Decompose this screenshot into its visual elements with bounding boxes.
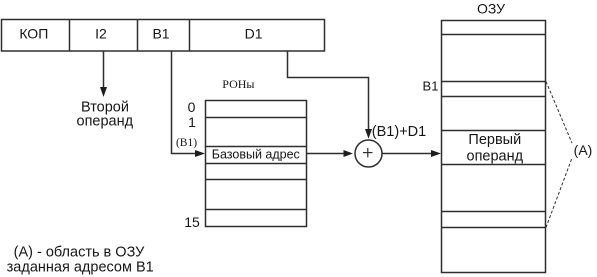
svg-text:операнд: операнд [77,114,134,130]
svg-text:Базовый адрес: Базовый адрес [212,148,300,162]
svg-text:(В1): (В1) [176,137,197,149]
svg-text:(В1)+D1: (В1)+D1 [372,124,426,140]
svg-text:0: 0 [188,99,196,115]
svg-text:(А) - область в ОЗУ: (А) - область в ОЗУ [14,245,146,261]
svg-text:заданная адресом В1: заданная адресом В1 [7,260,154,276]
svg-text:(А): (А) [574,142,593,158]
svg-text:В1: В1 [152,25,169,41]
svg-text:D1: D1 [245,25,263,41]
svg-text:I2: I2 [95,25,107,41]
svg-text:15: 15 [184,214,200,230]
svg-text:КОП: КОП [19,25,48,41]
svg-text:Первый: Первый [468,132,521,148]
svg-text:РОНы: РОНы [222,77,254,91]
svg-text:ОЗУ: ОЗУ [477,1,505,17]
svg-text:В1: В1 [423,79,439,94]
svg-text:1: 1 [188,114,196,130]
svg-text:операнд: операнд [467,149,524,165]
